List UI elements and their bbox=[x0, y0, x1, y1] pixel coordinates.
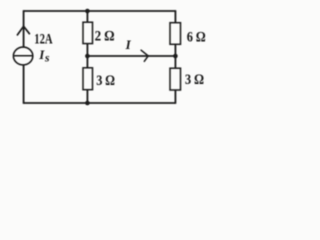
resistor R1 2Ω box bbox=[83, 22, 93, 43]
svg-text:12A: 12A bbox=[34, 32, 52, 48]
svg-text:I: I bbox=[125, 37, 132, 52]
node A junction: left branch and middle net bbox=[85, 54, 90, 59]
wire: stub from R1 to node A bbox=[86, 44, 88, 56]
wire: stub from R4 to bottom net bbox=[174, 90, 176, 104]
current source Is: circle with horizontal bar bbox=[13, 47, 32, 65]
wire: stub from node B to R4 bbox=[174, 56, 176, 68]
wire: middle horizontal net from node A to node B bbox=[87, 55, 175, 57]
wire: stub from R3 to node B bbox=[174, 44, 176, 56]
resistor R2 3Ω box (left) bbox=[83, 68, 93, 90]
wire: stub from node A to R2 bbox=[86, 56, 88, 68]
node B junction: right branch and middle net bbox=[173, 54, 178, 59]
wire: top horizontal net bbox=[24, 10, 176, 12]
svg-text:3 Ω: 3 Ω bbox=[185, 72, 204, 88]
wire: middle-left branch stub from top net to R1 bbox=[86, 11, 88, 22]
arrowhead: current I direction (right) on middle wire bbox=[141, 50, 148, 61]
junction: top net and left branch bbox=[85, 9, 90, 14]
wire: bottom horizontal net bbox=[24, 102, 176, 104]
arrowhead: source current direction (up) on left wire bbox=[17, 26, 29, 35]
label: Is source name bbox=[38, 47, 50, 65]
wire: stub from R2 to bottom net bbox=[86, 90, 88, 103]
wire: left branch lower segment (source to bottom wire) bbox=[23, 65, 25, 103]
svg-text:3 Ω: 3 Ω bbox=[96, 73, 115, 89]
resistor R4 3Ω box (right) bbox=[170, 68, 181, 90]
junction: bottom net and left branch bbox=[85, 101, 90, 106]
wire: right branch stub from top net to R3 bbox=[174, 10, 176, 23]
svg-text:s: s bbox=[44, 53, 50, 65]
svg-text:6 Ω: 6 Ω bbox=[187, 30, 206, 46]
svg-text:2 Ω: 2 Ω bbox=[95, 29, 115, 45]
wire: left branch upper segment (top wire to source) bbox=[23, 10, 25, 46]
resistor R3 6Ω box bbox=[170, 23, 181, 45]
